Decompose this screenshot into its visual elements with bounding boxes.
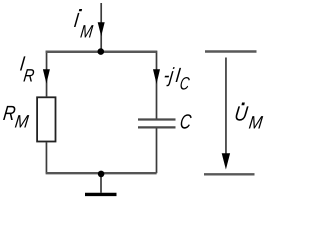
svg-text:M: M — [248, 112, 265, 133]
svg-text:M: M — [14, 111, 31, 132]
svg-text:U: U — [233, 103, 250, 126]
svg-text:-j: -j — [163, 64, 176, 87]
svg-text:I: I — [73, 8, 81, 31]
svg-text:M: M — [79, 21, 94, 42]
svg-text:C: C — [179, 111, 194, 134]
svg-text:R: R — [22, 65, 35, 86]
svg-text:C: C — [179, 75, 191, 94]
